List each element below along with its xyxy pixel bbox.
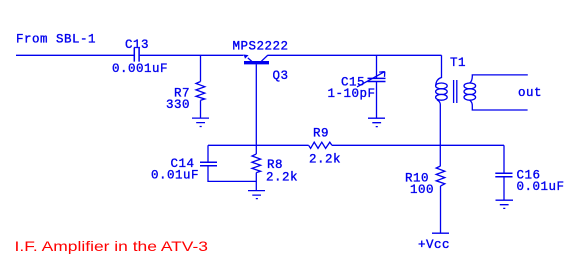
svg-text:1-10pF: 1-10pF — [328, 87, 376, 101]
transformer T1 secondary winding — [464, 83, 476, 100]
title I.F. Amplifier in the ATV-3 — [15, 238, 209, 254]
svg-text:330: 330 — [166, 98, 190, 112]
wire R8 to ground — [255, 173, 257, 191]
wire C15 branch down — [376, 55, 378, 78]
capacitor C16 — [495, 173, 512, 177]
Vcc terminal bar — [432, 232, 449, 234]
label MPS2222 — [233, 40, 289, 54]
value 0.001uF — [112, 62, 168, 76]
wire Q3 collector to T1 corner — [267, 54, 441, 56]
wire T1 primary bottom lead down to R10 — [437, 100, 440, 166]
value 2.2k of R9 — [309, 152, 341, 166]
svg-text:2.2k: 2.2k — [309, 152, 341, 166]
label R7 — [174, 87, 190, 101]
ground under R7 — [192, 118, 209, 126]
svg-text:MPS2222: MPS2222 — [233, 40, 289, 54]
wire C14 bottom — [208, 166, 256, 182]
wire T1 primary top lead — [436, 55, 442, 86]
resistor R10 — [436, 166, 445, 186]
ground under R8 — [248, 191, 265, 199]
wire input rail left of C13 — [16, 54, 134, 56]
label out — [518, 86, 542, 100]
wire C16 branch down — [503, 145, 505, 173]
wire R7 to ground — [200, 100, 202, 118]
value 0.01uF of C16 — [517, 180, 565, 194]
wire Q3 base down — [255, 64, 257, 154]
ground under C16 — [496, 200, 514, 208]
svg-text:T1: T1 — [450, 56, 466, 70]
label R8 — [267, 158, 283, 172]
ground under C15 — [368, 118, 385, 126]
transistor Q3 base bar — [244, 61, 269, 64]
capacitor C14 branch top wire — [207, 145, 209, 162]
value 100 — [410, 183, 434, 197]
value 330 — [166, 98, 190, 112]
value 1-10pF — [328, 87, 376, 101]
label C16 — [517, 169, 541, 183]
wire C15 to ground — [376, 82, 378, 119]
transformer T1 primary winding — [436, 83, 448, 100]
transistor Q3 emitter diagonal — [248, 58, 252, 62]
svg-text:0.01uF: 0.01uF — [517, 180, 565, 194]
label R9 — [313, 126, 329, 140]
resistor R7 — [196, 82, 205, 101]
value 2.2k of R8 — [266, 171, 298, 185]
wire R7 branch down — [200, 55, 202, 81]
value 0.01uF of C14 — [151, 168, 199, 182]
wire R9 to C16 corner — [332, 144, 504, 146]
resistor R9 — [309, 142, 332, 148]
svg-text:C13: C13 — [125, 38, 149, 52]
wire C16 to ground — [503, 177, 505, 200]
svg-text:100: 100 — [410, 183, 434, 197]
label C13 — [125, 38, 149, 52]
label Q3 — [273, 69, 289, 83]
arrow of variable capacitor C15 — [357, 72, 385, 87]
transistor Q3 collector diagonal — [261, 55, 267, 61]
svg-text:out: out — [518, 86, 542, 100]
node input label "From SBL-1" — [16, 33, 96, 47]
svg-text:2.2k: 2.2k — [266, 171, 298, 185]
transformer T1 core — [454, 80, 457, 103]
svg-text:0.001uF: 0.001uF — [112, 62, 168, 76]
svg-text:0.01uF: 0.01uF — [151, 168, 199, 182]
label C15 — [341, 75, 365, 89]
wire R10 down to Vcc terminal — [440, 186, 442, 233]
svg-text:From SBL-1: From SBL-1 — [16, 33, 96, 47]
label T1 — [450, 56, 466, 70]
wire T1 secondary top lead to out — [470, 75, 528, 83]
label +Vcc — [418, 238, 450, 252]
label C14 — [171, 157, 195, 171]
capacitor C14 — [200, 162, 217, 166]
svg-text:I.F. Amplifier in the ATV-3: I.F. Amplifier in the ATV-3 — [15, 238, 209, 254]
transistor Q3 emitter arrow — [244, 55, 249, 59]
wire C13 to Q3 emitter — [140, 54, 244, 56]
wire T1 secondary bottom lead to out — [470, 100, 528, 110]
svg-text:Q3: Q3 — [273, 69, 289, 83]
capacitor C15 variable — [368, 78, 386, 81]
svg-text:+Vcc: +Vcc — [418, 238, 450, 252]
svg-text:R9: R9 — [313, 126, 329, 140]
wire mid rail C14 to R9 — [208, 144, 309, 146]
capacitor C13 — [134, 48, 139, 62]
resistor R8 — [252, 154, 261, 173]
label R10 — [405, 172, 429, 186]
